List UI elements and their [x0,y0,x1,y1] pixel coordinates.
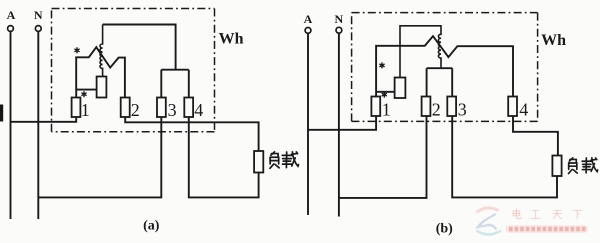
svg-text:4: 4 [519,100,528,120]
terminal 4 (b) [508,97,517,117]
svg-text:(a): (a) [143,219,160,234]
load resistor (b) [552,156,561,177]
wire terminal 4 to load top (b) [513,116,558,156]
wire bridge to terminal 4 (a) [188,70,190,98]
asterisk mark voltage coil (b) [382,92,387,98]
label 4 (b) [519,100,528,120]
wire terminal 2 to load top (a) [125,117,258,151]
svg-text:Wh: Wh [219,30,244,47]
meter box Wh dash-dot border (a) [52,9,215,132]
current coil zigzag (a) [76,47,125,97]
watermark text 电工天下 [513,209,582,219]
wire terminal 3 to neutral (a) [38,117,161,197]
svg-text:N: N [34,8,43,22]
terminal 3 (b) [447,97,456,117]
svg-text:2: 2 [432,100,441,120]
svg-text:3: 3 [168,100,177,120]
bridge wire terminals 3-4 (a) [161,69,189,71]
caption (a) [143,219,160,234]
label 2 (b) [432,100,441,120]
label 负载 load (b) [568,158,597,174]
terminal 1 (a) [72,98,81,118]
bridge wire terminals 2-3 (b) [427,67,453,69]
svg-text:A: A [304,12,313,26]
voltage coil wire with spring loops (a) [100,25,103,77]
label Wh (b) [541,32,566,49]
terminal N label (b) [334,12,343,26]
voltage coil rectangle (b) [395,78,406,99]
load resistor (a) [254,151,263,173]
terminal A circle (a) [8,26,14,32]
label 2 (a) [131,100,140,120]
label 负载 load (a) [270,152,299,168]
wire terminal 3 to load bottom (b) [452,116,557,197]
scan artifact left edge [0,105,3,122]
wire phase A vertical (a) [10,31,12,219]
svg-text:N: N [334,12,343,26]
wire coil top to bridge (a) [103,25,176,70]
asterisk mark voltage coil (a) [81,91,86,97]
wire terminal 4 to load bottom (a) [189,117,259,197]
terminal 3 (a) [157,98,166,118]
svg-text:1: 1 [81,100,90,120]
watermark logo teal arc [477,231,502,235]
svg-text:3: 3 [458,100,467,120]
current coil zigzag (b) [376,36,513,96]
watermark url band [506,225,589,232]
wire terminal 1 to phase A (a) [11,117,77,122]
label Wh (a) [219,30,244,47]
asterisk mark current coil (b) [379,62,384,68]
terminal N circle (a) [35,26,41,32]
wire terminal 1 to phase A (b) [308,116,376,130]
svg-text:Wh: Wh [541,32,566,49]
terminal 1 (b) [371,97,380,117]
terminal A circle (b) [305,28,311,34]
svg-text:4: 4 [194,100,203,120]
wire phase A vertical (b) [307,33,309,215]
watermark logo blue swirl [478,214,497,230]
label 3 (a) [168,100,177,120]
wire terminal 2 to neutral (b) [339,116,427,198]
voltage coil rectangle (a) [97,77,107,98]
caption (b) [436,222,453,237]
label 1 (b) [382,100,391,120]
terminal 2 (a) [121,98,130,118]
terminal 4 (a) [184,98,193,118]
wire neutral N vertical (b) [338,33,340,216]
svg-text:(b): (b) [436,222,453,237]
wire bridge to terminal 2 (b) [426,68,428,96]
svg-text:A: A [7,8,16,22]
wire bridge to terminal 3 (a) [160,70,162,98]
asterisk mark current coil (a) [74,47,79,53]
wire neutral N vertical (a) [37,31,39,219]
terminal A label (b) [304,12,313,26]
terminal N label (a) [34,8,43,22]
voltage coil wire with spring loops (b) [400,26,441,78]
terminal N circle (b) [336,27,342,33]
watermark logo red arc [477,208,499,213]
svg-text:2: 2 [131,100,140,120]
wire bridge to terminal 3 (b) [451,68,453,96]
voltage coil tap wire (a) [76,89,96,91]
terminal A label (a) [7,8,16,22]
svg-text:1: 1 [382,100,391,120]
voltage coil tap wire (b) [376,91,395,93]
terminal 2 (b) [422,97,431,117]
label 1 (a) [81,100,90,120]
meter box Wh dash-dot border (b) [352,13,538,122]
label 3 (b) [458,100,467,120]
label 4 (a) [194,100,203,120]
